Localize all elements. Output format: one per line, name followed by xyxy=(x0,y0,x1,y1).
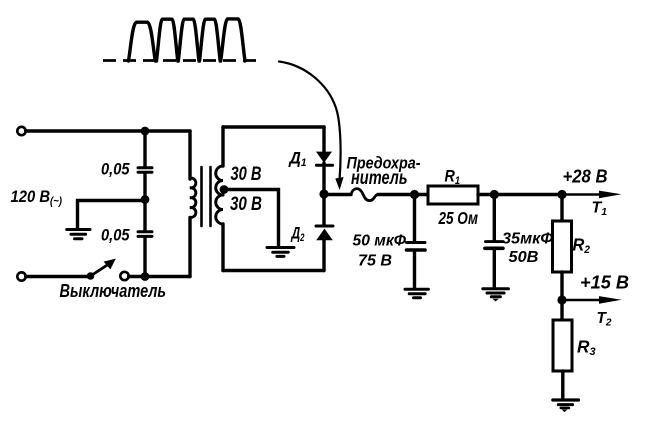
wire to input ground xyxy=(78,201,146,230)
svg-text:35мкФ: 35мкФ xyxy=(502,231,554,248)
svg-text:30 В: 30 В xyxy=(230,194,262,215)
diode D1 xyxy=(316,152,332,163)
rail node diodes xyxy=(319,189,328,198)
node R2 branch xyxy=(557,190,566,199)
node 50uF branch xyxy=(410,190,419,199)
diode D2 xyxy=(316,225,333,228)
node top cap junction xyxy=(141,127,150,136)
output arrow +28V xyxy=(562,193,606,196)
wire rail to fuse xyxy=(324,193,351,196)
transformer secondary winding lower 30V xyxy=(216,195,223,224)
wire node to R3 xyxy=(560,300,563,320)
input terminal top xyxy=(17,127,25,135)
ground center tap xyxy=(267,246,294,249)
wire bottom input xyxy=(26,275,88,278)
wire 50uF lower xyxy=(413,251,416,288)
svg-text:нитель: нитель xyxy=(351,167,408,189)
waveform pulse 2 xyxy=(157,19,178,61)
svg-text:R2: R2 xyxy=(573,235,591,257)
waveform pulse 4 xyxy=(200,19,221,61)
center tap node xyxy=(220,185,229,194)
wire 35uF lower xyxy=(493,249,496,287)
wire rail to R2 xyxy=(560,195,563,222)
svg-text:Д1: Д1 xyxy=(288,149,307,170)
wire secondary top xyxy=(223,125,324,128)
wire switch to primary xyxy=(129,275,190,278)
waveform pulse 5 xyxy=(221,19,245,61)
capacitor 50uF xyxy=(407,241,426,244)
switch terminal xyxy=(120,272,128,280)
capacitor C2 0,05 xyxy=(138,230,152,233)
wire secondary bottom xyxy=(223,269,324,272)
input terminal bottom xyxy=(17,272,25,280)
wire fuse to node xyxy=(378,193,415,196)
node middle cap junction xyxy=(141,195,150,204)
wire cap chain middle upper xyxy=(143,173,146,200)
wire R2 to node xyxy=(560,272,563,300)
node bottom cap junction xyxy=(141,272,150,281)
waveform pulse 1 xyxy=(129,22,156,61)
capacitor 35uF xyxy=(486,240,504,243)
wire R3 to ground xyxy=(561,371,564,399)
fuse xyxy=(351,189,378,201)
wire cap chain lower xyxy=(143,237,146,277)
node +15V xyxy=(557,295,566,304)
svg-text:Т2: Т2 xyxy=(597,310,612,329)
svg-text:30 В: 30 В xyxy=(231,164,262,185)
svg-text:0,05: 0,05 xyxy=(101,161,130,179)
svg-text:50В: 50В xyxy=(509,249,539,266)
wire 50uF upper xyxy=(413,195,416,242)
waveform dashed baseline xyxy=(103,59,263,62)
wire cap chain middle lower xyxy=(143,200,146,231)
svg-text:Т1: Т1 xyxy=(592,200,608,219)
node 35uF branch xyxy=(490,190,499,199)
svg-text:+15 В: +15 В xyxy=(580,273,629,293)
wire node to node R2 xyxy=(494,193,562,196)
transformer primary winding xyxy=(188,131,191,179)
wire top input xyxy=(26,129,190,132)
svg-text:Д2: Д2 xyxy=(290,224,304,245)
svg-text:+28 В: +28 В xyxy=(563,167,608,187)
svg-text:50 мкФ: 50 мкФ xyxy=(353,233,407,250)
resistor R3 xyxy=(553,320,572,371)
output arrow +15V xyxy=(562,299,606,302)
svg-text:R1: R1 xyxy=(445,167,461,188)
ground R3 xyxy=(553,398,579,401)
capacitor C1 0,05 xyxy=(138,166,152,169)
wire rail node to D2 xyxy=(322,194,325,225)
curved pointer arrow from waveform to fuse node xyxy=(279,62,341,181)
switch arm with arrowhead xyxy=(91,264,109,276)
svg-text:0,05: 0,05 xyxy=(101,227,130,245)
svg-text:R3: R3 xyxy=(577,337,596,359)
wire D1 to rail node xyxy=(322,163,325,194)
wire secondary top right down to D1 xyxy=(322,127,325,152)
wire R1 to node xyxy=(478,193,496,196)
wire D2 to secondary bottom xyxy=(322,240,325,271)
wire 35uF upper xyxy=(493,195,496,241)
resistor R2 xyxy=(553,221,572,272)
svg-text:25 Ом: 25 Ом xyxy=(438,208,478,228)
transformer core xyxy=(200,167,203,226)
ground input xyxy=(67,228,90,231)
wire cap chain upper xyxy=(143,131,146,166)
svg-text:120 В(~): 120 В(~) xyxy=(11,187,63,208)
wire node to R1 xyxy=(415,193,429,196)
svg-text:75 В: 75 В xyxy=(358,253,392,270)
waveform pulse 3 xyxy=(178,19,199,61)
ground 35uF xyxy=(483,287,509,290)
svg-text:Выключатель: Выключатель xyxy=(60,281,167,301)
ground 50uF xyxy=(405,288,428,291)
switch pivot node xyxy=(87,272,95,280)
wire center tap to ground xyxy=(224,190,279,247)
transformer secondary winding upper 30V xyxy=(221,127,224,166)
resistor R1 xyxy=(428,186,478,204)
